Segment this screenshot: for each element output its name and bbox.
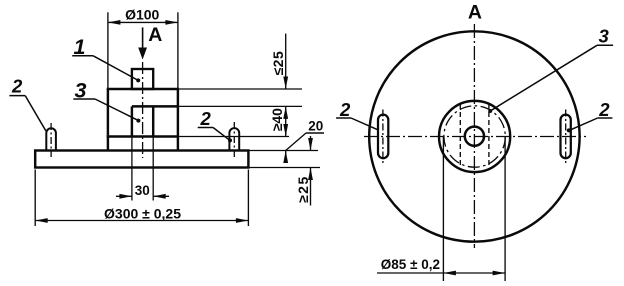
vertical centerline bbox=[473, 24, 475, 248]
label 2 right plan underline bbox=[598, 117, 613, 119]
dimension ≥25 lower segment with arrow up to plate bottom bbox=[310, 168, 312, 206]
body top extension line to right dims bbox=[179, 88, 302, 90]
dimension Ø85 arrow left bbox=[443, 271, 456, 276]
left slot centerline bbox=[50, 123, 52, 157]
label 2 right underline bbox=[198, 127, 213, 129]
svg-text:3: 3 bbox=[599, 25, 610, 46]
hole bottom line across body bbox=[107, 135, 179, 137]
plate bottom extension line to right dims bbox=[250, 167, 321, 169]
cylinder circle Ø100 bbox=[439, 101, 510, 172]
bolt circle Ø85 dash-dot bbox=[444, 106, 505, 167]
body left edge bbox=[107, 89, 109, 151]
left slot centerline bbox=[382, 110, 384, 164]
dimension Ø85 extension line left bbox=[442, 137, 444, 281]
svg-text:Ø300 ± 0,25: Ø300 ± 0,25 bbox=[104, 206, 181, 222]
view direction arrow A head bbox=[138, 48, 147, 60]
label 2 left underline bbox=[9, 95, 25, 97]
dimension 30 arrow left bbox=[116, 195, 132, 197]
svg-text:30: 30 bbox=[135, 183, 150, 198]
dimension 20 lower arrow below plate top bbox=[285, 151, 287, 162]
label 3 plan leader bbox=[491, 45, 598, 111]
dimension ≥40 line bbox=[285, 106, 287, 136]
view direction arrow A shaft bbox=[142, 27, 144, 50]
dimension Ø300 extension line right bbox=[247, 170, 249, 227]
dimension Ø300 dimension line bbox=[35, 220, 248, 222]
dimension ≥40 arrow up bbox=[283, 106, 288, 119]
centerline of left view bbox=[142, 62, 144, 158]
label 1 leader dot bbox=[136, 78, 140, 82]
svg-text:A: A bbox=[148, 24, 162, 46]
dimension 20 underline bbox=[306, 132, 324, 134]
label 2 right leader bbox=[213, 128, 230, 141]
hidden edge dashed right bbox=[488, 104, 490, 169]
label 2 left leader bbox=[25, 96, 46, 131]
body right edge bbox=[177, 89, 179, 151]
svg-text:20: 20 bbox=[308, 118, 323, 133]
plate top extension line to right dims bbox=[250, 150, 319, 152]
extension line from hole left edge down to 30 dim bbox=[131, 137, 133, 201]
right slot centerline bbox=[233, 122, 235, 158]
extension line from hole right edge down to 30 dim bbox=[152, 137, 154, 201]
dimension ≤25 line bbox=[285, 34, 287, 89]
dimension ≥40 arrow down bbox=[283, 124, 288, 137]
dimension ≤25 arrow down bbox=[283, 77, 288, 90]
right slot item 2 front view outline bbox=[229, 128, 239, 150]
svg-text:≥40: ≥40 bbox=[269, 108, 285, 131]
hole bottom extension line to right dims bbox=[179, 136, 289, 138]
label 3 leader dot bbox=[136, 119, 140, 123]
svg-text:A: A bbox=[468, 1, 482, 23]
dimension Ø300 arrow left bbox=[35, 218, 48, 223]
svg-text:Ø85 ± 0,2: Ø85 ± 0,2 bbox=[381, 257, 440, 272]
label 3 plan leader dot bbox=[488, 109, 492, 113]
label 1 leader bbox=[93, 56, 138, 80]
svg-text:≤25: ≤25 bbox=[270, 51, 286, 76]
label 3 leader bbox=[95, 99, 138, 120]
dimension Ø100 extension line left bbox=[107, 12, 109, 89]
horizontal centerline bbox=[364, 136, 586, 138]
label 2 right leader dot bbox=[228, 138, 232, 142]
left slot item 2 plan view bbox=[378, 115, 388, 159]
hole circle item 3 bbox=[465, 127, 484, 146]
label 3 plan underline bbox=[597, 44, 613, 46]
label 1 underline bbox=[72, 55, 93, 57]
dimension Ø300 arrow right bbox=[236, 218, 249, 223]
hole top extension line to right dims bbox=[179, 105, 302, 107]
hole left edge bbox=[131, 106, 133, 136]
right slot centerline bbox=[565, 110, 567, 164]
dimension Ø85 dimension line bbox=[377, 272, 505, 274]
right slot item 2 plan view bbox=[561, 115, 571, 159]
body top line bbox=[107, 88, 179, 90]
dimension 20 leader diagonal bbox=[286, 133, 306, 151]
label 3 underline bbox=[73, 98, 95, 100]
hole top line (item 3 top) bbox=[132, 105, 179, 107]
svg-text:2: 2 bbox=[598, 99, 610, 120]
svg-text:2: 2 bbox=[339, 99, 351, 120]
svg-text:2: 2 bbox=[11, 76, 23, 97]
left slot item 2 front view outline bbox=[46, 128, 56, 150]
dimension Ø300 extension line left bbox=[34, 170, 36, 227]
label 2 left plan leader bbox=[351, 118, 378, 130]
dimension Ø85 arrow right bbox=[493, 271, 506, 276]
dimension Ø85 extension line right bbox=[504, 137, 506, 281]
base plate circle Ø300 bbox=[369, 31, 579, 241]
label 2 left plan underline bbox=[336, 117, 351, 119]
boss item 1 bbox=[132, 69, 153, 89]
label 2 right plan leader bbox=[569, 118, 597, 130]
dimension Ø100 dimension line bbox=[108, 21, 178, 23]
label 2 right plan leader dot bbox=[567, 128, 571, 132]
dimension 30 arrow right bbox=[153, 195, 169, 197]
dimension Ø100 extension line right bbox=[177, 12, 179, 89]
svg-text:Ø100: Ø100 bbox=[125, 6, 159, 22]
hidden edge dashed left bbox=[459, 104, 461, 169]
dimension Ø100 arrow left bbox=[108, 20, 121, 25]
dimension Ø100 arrow right bbox=[165, 20, 178, 25]
svg-text:2: 2 bbox=[200, 108, 212, 129]
svg-text:≥25: ≥25 bbox=[295, 175, 311, 203]
hole right edge bbox=[152, 106, 154, 136]
dimension ≥25 upper segment with arrow down to plate top bbox=[310, 136, 312, 151]
base plate bbox=[35, 151, 248, 168]
